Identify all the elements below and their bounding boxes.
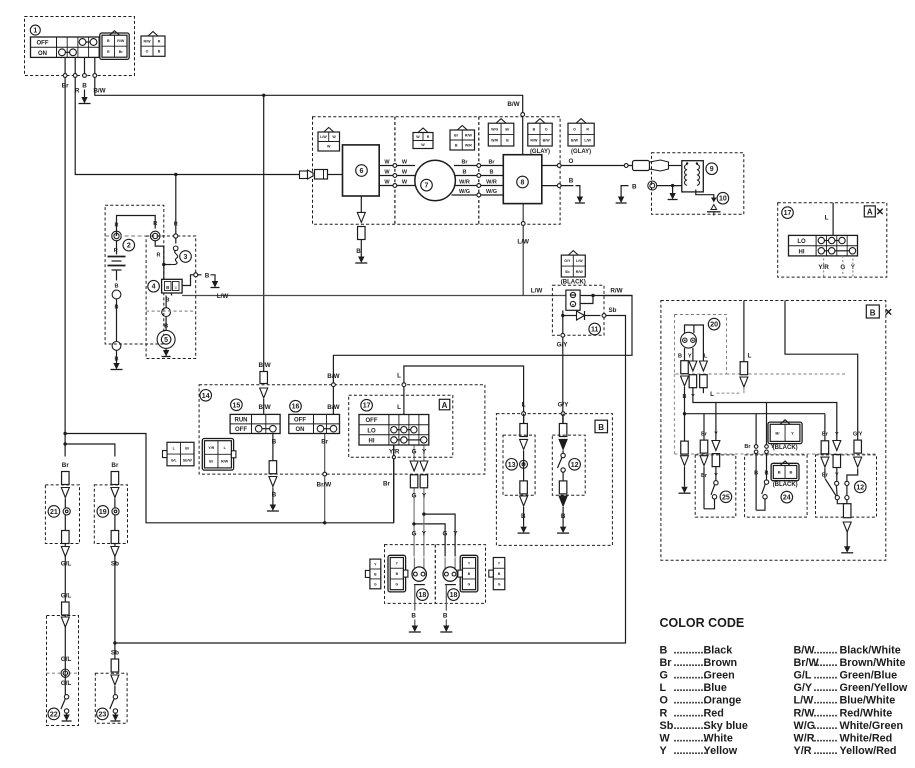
wire Y/R-Br below dimmer switch 17: [393, 445, 395, 523]
svg-text:W/G: W/G: [794, 720, 816, 732]
female bullet B lamp: [681, 361, 689, 374]
svg-text:ON: ON: [38, 51, 47, 57]
brake switch 12 column: [562, 414, 564, 424]
svg-text:W: W: [384, 179, 390, 185]
svg-text:G/L: G/L: [61, 656, 72, 663]
lamp unit dashed box: [675, 315, 727, 375]
junction node B bus: [683, 412, 686, 415]
main switch number 1: [30, 25, 40, 35]
wire Br feed to handlebar switch harness: [65, 434, 394, 523]
wire B left bulb: [414, 585, 416, 611]
ground relay B left: [618, 197, 624, 204]
wire O unit 8 to relay 9: [542, 165, 632, 167]
svg-text:W: W: [402, 179, 408, 185]
flasher unit 11 dashed box: [552, 285, 604, 335]
wire L stub: [743, 388, 745, 393]
flasher number 11: [589, 323, 601, 335]
wire B/W main switch to rectifier 8: [95, 76, 523, 155]
wire dashed gray lamp bottom ext: [727, 373, 848, 375]
wire B to ground at main switch: [84, 90, 86, 100]
svg-text:B: B: [272, 438, 277, 445]
svg-text:B: B: [632, 184, 637, 191]
svg-text:Br: Br: [454, 133, 459, 137]
svg-text:L/W: L/W: [517, 239, 529, 246]
wire R into unit 6: [327, 174, 343, 176]
female bullet G/L: [62, 602, 70, 615]
bulb 18 left base: [414, 584, 425, 586]
svg-text:B/W: B/W: [327, 404, 339, 411]
male bullet 21: [61, 488, 69, 498]
svg-text:B/W: B/W: [93, 88, 105, 95]
svg-text:G: G: [412, 448, 417, 455]
junction node Br to 19: [63, 442, 66, 445]
wire Y into bulb r: [454, 558, 456, 569]
wire bus lower: [685, 413, 825, 415]
svg-text:10: 10: [719, 196, 727, 203]
svg-text:White/Green: White/Green: [840, 720, 904, 732]
svg-text:........: ........: [814, 695, 838, 707]
svg-text:R: R: [157, 253, 161, 259]
wire dashed boundary: [105, 235, 146, 237]
switch number 12: [569, 459, 581, 471]
male bullet Y lamp: [689, 361, 697, 371]
node L/W on box edge: [521, 222, 525, 226]
svg-text:R/W: R/W: [576, 270, 584, 274]
svg-text:........: ........: [814, 707, 838, 719]
female bullet Y lamp 2: [689, 375, 697, 388]
svg-text:B: B: [443, 612, 448, 619]
bulb 13 element: [520, 460, 528, 468]
svg-text:W: W: [421, 143, 425, 147]
svg-text:B: B: [356, 248, 361, 255]
svg-text:L: L: [825, 215, 829, 222]
switch 23 dashed box: [95, 673, 127, 723]
male bullet 19 low: [111, 547, 119, 557]
svg-text:B: B: [463, 169, 467, 175]
wire Y from dimmer 17 to headlights: [423, 445, 425, 461]
svg-text:L/W: L/W: [794, 695, 815, 707]
svg-text:R: R: [114, 248, 118, 254]
svg-text:Red: Red: [704, 707, 724, 719]
svg-text:B/W: B/W: [258, 404, 270, 411]
svg-text:1: 1: [33, 28, 37, 35]
handlebar switch number 14: [200, 390, 212, 402]
svg-text:15: 15: [233, 402, 241, 409]
lamp number 20: [708, 318, 720, 330]
wire G into bulb: [413, 558, 415, 569]
male bullet B: [269, 477, 277, 487]
svg-text:Green/Yellow: Green/Yellow: [840, 682, 908, 694]
svg-text:Br: Br: [701, 431, 708, 437]
svg-text:W/R: W/R: [486, 179, 497, 185]
svg-text:ON: ON: [296, 427, 305, 433]
svg-text:7: 7: [425, 183, 429, 190]
wire dashed divider headlights: [434, 545, 436, 604]
sensor number 21: [48, 506, 60, 518]
wire Y to right headlight: [424, 514, 455, 556]
svg-text:W: W: [402, 159, 408, 165]
male bullet L lamp: [699, 361, 707, 371]
wire relay to ground 10: [696, 190, 714, 198]
switch 25 dashed box: [695, 455, 736, 517]
svg-text:B: B: [82, 83, 87, 90]
female bullet 19: [111, 472, 119, 485]
female bullet 19 low: [111, 531, 119, 544]
svg-text:17: 17: [784, 210, 792, 217]
connector 2P BLACK: [780, 420, 790, 425]
svg-text:25: 25: [722, 494, 730, 501]
svg-text:W: W: [384, 159, 390, 165]
bulb 18 right base: [445, 584, 456, 586]
svg-text:B: B: [506, 139, 509, 143]
svg-text:COLOR CODE: COLOR CODE: [660, 616, 745, 630]
bullet pair on O wire: [633, 161, 650, 171]
wire B/W switch 16 up-right-down joining R/W of unit 11: [333, 296, 632, 415]
svg-text:R/W: R/W: [144, 39, 152, 43]
ground headlight left: [412, 626, 418, 633]
switch 17 LO contacts: [391, 427, 397, 433]
male bullet Sb: [111, 675, 119, 685]
svg-text:........: ........: [814, 657, 838, 669]
wire G/Y into box: [785, 301, 858, 441]
svg-text:White/Red: White/Red: [840, 733, 893, 745]
svg-text:Br: Br: [660, 657, 673, 669]
main switch contact table: [31, 37, 100, 57]
label box B alt: [866, 305, 879, 318]
wire B unit 8 to ground: [542, 185, 574, 187]
headlight bulb 18 left: [412, 567, 426, 581]
svg-text:G: G: [443, 531, 448, 538]
svg-text:L/W: L/W: [584, 139, 591, 143]
ground switch 12 alt: [844, 546, 850, 553]
ring terminal battery negative: [112, 290, 121, 299]
svg-text:Y: Y: [791, 430, 794, 435]
wire R main switch to ignition unit 6: [75, 76, 300, 175]
svg-text:...........: ...........: [674, 695, 707, 707]
switch 15 contacts: [255, 425, 262, 432]
svg-text:...........: ...........: [674, 720, 707, 732]
wire B unit 4 to horn: [165, 296, 167, 308]
female bullet 21: [62, 472, 70, 485]
svg-text:B/W: B/W: [543, 139, 551, 143]
headlight number 18 left: [417, 589, 429, 601]
wire Sb from diode of 11 to switch 23: [115, 316, 626, 644]
svg-text:W: W: [660, 733, 671, 745]
svg-text:G/Y: G/Y: [557, 342, 569, 349]
svg-text:Br: Br: [775, 430, 780, 435]
svg-text:...........: ...........: [674, 657, 707, 669]
svg-text:Br: Br: [62, 462, 70, 469]
sensor 19 dashed box: [94, 485, 127, 544]
svg-text:19: 19: [99, 509, 107, 516]
svg-text:G/Y: G/Y: [853, 432, 863, 438]
svg-text:9: 9: [710, 166, 714, 173]
svg-text:4: 4: [152, 284, 156, 291]
svg-text:W/G: W/G: [459, 189, 470, 195]
battery positive bracket: [117, 216, 156, 237]
svg-text:R: R: [586, 127, 589, 131]
switch 15 number: [231, 399, 243, 411]
svg-text:B: B: [660, 644, 668, 656]
svg-text:Br: Br: [744, 444, 751, 450]
main switch 1 dashed box: [25, 17, 135, 76]
svg-text:B: B: [490, 169, 494, 175]
svg-text:23: 23: [99, 711, 107, 718]
flasher unit 11 inner box: [566, 290, 580, 310]
ground B alt box: [681, 487, 687, 494]
svg-text:...........: ...........: [674, 670, 707, 682]
connector 3P above magneto: [418, 128, 428, 133]
svg-text:Br: Br: [505, 127, 510, 131]
ground B unit 8: [577, 197, 583, 204]
svg-text:Y: Y: [688, 354, 692, 360]
connector 3P inner right: [460, 555, 478, 592]
svg-text:L: L: [397, 404, 401, 411]
svg-text:R: R: [115, 223, 119, 229]
switch 17 HI contacts: [391, 437, 397, 443]
junction node relay B: [671, 184, 674, 187]
svg-text:B: B: [678, 354, 682, 360]
svg-text:Br: Br: [461, 159, 468, 165]
switch 22: [64, 695, 68, 699]
svg-text:2: 2: [127, 243, 131, 250]
svg-text:........: ........: [814, 644, 838, 656]
svg-text:Y/R: Y/R: [389, 448, 400, 455]
wire Br/W from light switch 16 down: [324, 434, 326, 523]
wire B to ground: [211, 275, 216, 285]
svg-text:L: L: [748, 353, 752, 360]
unit 6 number: [356, 165, 368, 177]
ground bulb 13: [520, 527, 526, 534]
switch 23: [113, 695, 117, 699]
svg-text:B: B: [778, 469, 781, 474]
svg-text:✕: ✕: [884, 308, 892, 319]
svg-text:........: ........: [814, 720, 838, 732]
female bullet: [358, 227, 366, 240]
svg-text:Green/Blue: Green/Blue: [840, 670, 898, 682]
alt HI row contacts: [818, 248, 824, 254]
connector block main switch (4P): [110, 31, 120, 36]
svg-text:18: 18: [450, 592, 458, 599]
ring terminal battery left: [112, 231, 122, 241]
svg-text:G: G: [412, 531, 417, 538]
svg-text:W: W: [416, 135, 420, 139]
svg-text:(BLACK): (BLACK): [773, 445, 798, 451]
svg-text:B: B: [598, 423, 604, 432]
svg-text:R/W: R/W: [465, 133, 473, 137]
ground relay engine: [669, 193, 675, 200]
svg-text:Yellow/Red: Yellow/Red: [840, 745, 897, 757]
magneto number 7: [421, 179, 433, 191]
svg-text:W: W: [402, 169, 408, 175]
wire L/W below unit 4: [171, 293, 173, 296]
ring terminal frame: [112, 342, 121, 351]
svg-text:........: ........: [814, 745, 838, 757]
svg-text:(BLACK): (BLACK): [773, 482, 798, 488]
wire B bus: [684, 387, 686, 441]
wire G/Y corner: [847, 469, 858, 482]
svg-text:B/W: B/W: [507, 101, 519, 108]
svg-text:R/W: R/W: [794, 707, 816, 719]
svg-text:18: 18: [419, 592, 427, 599]
female bullet B: [269, 461, 277, 474]
sensor 19 element: [112, 508, 119, 515]
wire B lamp 20: [684, 348, 686, 361]
svg-text:Brown/White: Brown/White: [840, 657, 906, 669]
svg-text:HI: HI: [369, 439, 375, 445]
svg-text:Sb: Sb: [111, 650, 119, 657]
female bullet 21 low: [62, 531, 70, 544]
wire L/W from rectifier 8 down: [522, 204, 524, 296]
svg-text:Red/White: Red/White: [840, 707, 893, 719]
svg-text:W/R: W/R: [794, 733, 815, 745]
svg-text:Y/R: Y/R: [208, 446, 214, 450]
label box B: [595, 420, 608, 433]
connector 4P GLAY 2: [576, 119, 586, 124]
wire G from dimmer 17 to headlights: [413, 445, 415, 461]
switch number 22: [48, 708, 60, 720]
wire dashed divider: [146, 310, 196, 312]
headlight number 18 right: [448, 589, 460, 601]
svg-text:12: 12: [856, 484, 864, 491]
connector block spare (4P): [148, 32, 158, 37]
svg-text:G/L: G/L: [171, 458, 178, 462]
svg-text:L: L: [397, 373, 401, 380]
wire G/L inside box 22: [64, 616, 66, 697]
wire L into box: [743, 301, 745, 362]
svg-text:≡: ≡: [174, 285, 177, 290]
connector 3P outer right: [493, 558, 505, 590]
svg-text:L: L: [522, 402, 526, 409]
svg-text:OFF: OFF: [37, 41, 49, 47]
wire B/W down to engine stop switch 15: [263, 95, 265, 372]
dimmer switch dashed box A: [349, 395, 453, 457]
wire G stub: [842, 256, 844, 277]
alt taillight dashed box B: [661, 301, 886, 561]
wire Y into bulb: [423, 558, 425, 569]
sensor 21 dashed box: [45, 485, 79, 544]
wire dashed divider 22: [47, 672, 79, 674]
svg-text:R: R: [660, 707, 668, 719]
relay number 9: [706, 163, 718, 175]
svg-text:...........: ...........: [674, 733, 707, 745]
node B on box edge: [557, 184, 561, 188]
svg-text:Br: Br: [383, 481, 391, 488]
svg-text:B: B: [765, 471, 769, 477]
svg-text:Sb: Sb: [660, 720, 674, 732]
svg-text:L: L: [660, 682, 667, 694]
svg-text:...........: ...........: [674, 707, 707, 719]
switch 16 contacts: [317, 425, 324, 432]
wire L dashed: [717, 392, 741, 394]
svg-text:B/W: B/W: [327, 373, 339, 380]
switch 16 number: [290, 400, 302, 412]
svg-text:R: R: [427, 135, 430, 139]
magneto group dashed box: [313, 117, 561, 224]
svg-text:G: G: [498, 583, 501, 587]
svg-text:B/W: B/W: [258, 362, 270, 369]
svg-text:OFF: OFF: [235, 427, 247, 433]
junction node R/W: [591, 294, 594, 297]
wire Br stub: [824, 468, 826, 478]
svg-text:........: ........: [814, 670, 838, 682]
sensor number 19: [97, 506, 109, 518]
battery number 2: [123, 239, 135, 251]
fuse-relay-horn dashed box: [146, 236, 196, 359]
svg-text:20: 20: [710, 322, 718, 329]
svg-text:W/R: W/R: [465, 143, 472, 147]
label box A: [439, 399, 450, 410]
connector 4P BLACK above 11: [568, 251, 578, 256]
svg-text:R: R: [158, 39, 161, 43]
spark plug connector pair on R wire: [300, 171, 308, 179]
svg-text:Br: Br: [209, 460, 214, 464]
female bullet B: [681, 441, 689, 454]
svg-text:G/Y: G/Y: [564, 259, 571, 263]
ring terminal battery right: [150, 231, 160, 241]
wire Y lamp 20: [692, 348, 694, 361]
svg-text:G/Y: G/Y: [794, 682, 813, 694]
ground battery: [113, 363, 119, 370]
svg-text:Blue/White: Blue/White: [840, 695, 896, 707]
tail lamp 20: [681, 332, 697, 348]
wire to fuse 3: [164, 264, 172, 266]
switch 24 dashed box: [745, 455, 808, 517]
svg-text:(GLAY): (GLAY): [571, 149, 591, 155]
Br drop to switch 24: [755, 414, 757, 445]
wire L dimmer switch 17 to taillight 13: [404, 366, 524, 424]
wire B headlight grounds: [414, 620, 416, 629]
ground switch 12: [560, 527, 566, 534]
wire dashed divider 6/7: [394, 117, 396, 224]
male bullet B/W: [260, 388, 268, 398]
svg-text:17: 17: [363, 403, 371, 410]
wire G into bulb r: [444, 558, 446, 569]
connector 3P outer left: [370, 559, 381, 589]
svg-text:16: 16: [292, 404, 300, 411]
svg-text:B/W: B/W: [571, 139, 579, 143]
svg-text:RUN: RUN: [235, 418, 248, 424]
switch 12 Br arm: [825, 479, 836, 496]
svg-text:G: G: [412, 493, 417, 500]
wire B below unit 6: [360, 196, 362, 212]
svg-text:L/W: L/W: [576, 259, 583, 263]
switch 17 number: [361, 399, 373, 411]
svg-text:Black: Black: [704, 644, 734, 656]
svg-text:LO: LO: [797, 239, 806, 245]
switch 12 alt dashed box: [816, 455, 877, 517]
svg-text:6: 6: [360, 168, 364, 175]
wire Y stub: [852, 259, 854, 278]
svg-text:Y/R: Y/R: [794, 745, 812, 757]
svg-text:B: B: [870, 308, 876, 317]
fuse 3: [174, 234, 178, 238]
svg-text:W/R: W/R: [491, 139, 498, 143]
svg-text:B: B: [455, 143, 458, 147]
fuse number 3: [180, 251, 192, 263]
svg-text:O: O: [568, 158, 573, 165]
wire Br branch to sensor 19: [65, 444, 115, 457]
svg-text:8: 8: [521, 180, 525, 187]
svg-text:...........: ...........: [674, 745, 707, 757]
svg-text:White: White: [704, 733, 733, 745]
starter relay unit 4: [162, 279, 183, 293]
lamp 20 bracket and wire L: [685, 325, 704, 361]
sensor 21 element: [63, 508, 70, 515]
main switch pigtails: [64, 57, 66, 75]
starter relay 9 dashed box: [652, 153, 744, 215]
wire L dashed to bullet: [702, 388, 704, 394]
